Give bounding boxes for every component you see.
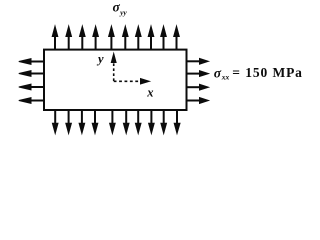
right arrow r3 bbox=[187, 84, 209, 90]
bottom arrow b4 bbox=[92, 110, 98, 134]
bottom arrow b1 bbox=[52, 110, 58, 134]
label sigma_xx = 150 MPa bbox=[214, 65, 303, 81]
label sigma_yy bbox=[113, 0, 128, 17]
top arrow t2 bbox=[66, 26, 72, 49]
y axis dashed arrow bbox=[111, 54, 116, 82]
top arrow t9 bbox=[161, 26, 167, 49]
svg-text:σ: σ bbox=[214, 65, 222, 80]
left arrow l3 bbox=[19, 84, 44, 90]
top arrow t7 bbox=[136, 26, 142, 49]
right arrow r2 bbox=[187, 71, 209, 77]
top arrow t3 bbox=[80, 26, 86, 49]
top arrow t4 bbox=[93, 26, 99, 49]
bottom arrow b2 bbox=[66, 110, 72, 134]
x axis dashed arrow bbox=[114, 79, 150, 84]
svg-text:yy: yy bbox=[119, 8, 127, 17]
top arrow t1 bbox=[52, 26, 58, 49]
bottom arrow b7 bbox=[135, 110, 141, 134]
bottom arrow b3 bbox=[79, 110, 85, 134]
stress element rectangle bbox=[44, 50, 187, 110]
right arrow r4 bbox=[187, 98, 209, 104]
svg-text:xx: xx bbox=[221, 73, 230, 82]
left arrow l1 bbox=[19, 59, 44, 65]
left arrow l2 bbox=[19, 71, 44, 77]
svg-text:y: y bbox=[96, 52, 104, 66]
bottom arrow b5 bbox=[110, 110, 116, 134]
svg-text:= 150 MPa: = 150 MPa bbox=[232, 65, 302, 80]
bottom arrow b8 bbox=[149, 110, 155, 134]
left arrow l4 bbox=[19, 98, 44, 104]
top arrow t5 bbox=[109, 26, 115, 49]
top arrow t8 bbox=[148, 26, 154, 49]
bottom arrow b10 bbox=[174, 110, 180, 134]
bottom arrow b6 bbox=[123, 110, 129, 134]
right arrow r1 bbox=[187, 58, 209, 64]
bottom arrow b9 bbox=[161, 110, 167, 134]
svg-text:x: x bbox=[146, 85, 153, 99]
top arrow t10 bbox=[174, 26, 180, 49]
top arrow t6 bbox=[123, 26, 129, 49]
